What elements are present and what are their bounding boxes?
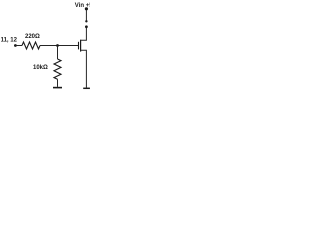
wire terminal to R1 [15, 45, 22, 47]
junction node A [56, 44, 59, 47]
drain stub wire [81, 27, 87, 40]
svg-text:10kΩ: 10kΩ [33, 65, 48, 71]
svg-text:220Ω: 220Ω [25, 34, 40, 40]
transistor Q1 channel bar [80, 40, 82, 52]
svg-text:11, 12: 11, 12 [1, 38, 18, 44]
ground bar R2 [53, 87, 62, 89]
connector dot upper [85, 20, 87, 22]
wire R2 to ground [57, 79, 59, 87]
wire Vin terminal down [85, 9, 87, 21]
source terminal bar [83, 87, 90, 89]
terminal dot Vin [85, 7, 88, 10]
resistor R1 220ohm zigzag [22, 42, 40, 49]
svg-text:Vin +5: Vin +5 [75, 3, 90, 9]
terminal dot node 11,12 [14, 44, 17, 47]
connector dot lower [85, 25, 88, 28]
resistor R2 10kohm zigzag [54, 59, 61, 79]
wire R1 to gate [40, 45, 78, 47]
source stub wire [81, 50, 87, 87]
transistor Q1 gate bar [78, 42, 80, 50]
wire junction to R2 [57, 46, 59, 60]
